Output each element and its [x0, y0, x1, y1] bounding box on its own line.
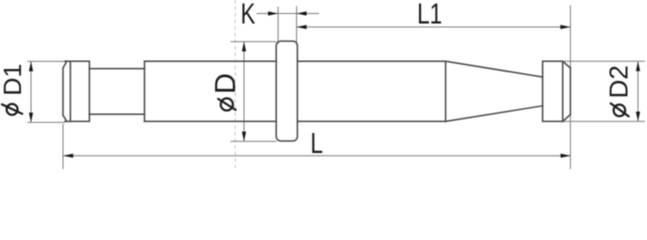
dim ext L left: [62, 124, 64, 169]
arrow K left (points right): [268, 11, 278, 15]
svg-text:D2: D2: [604, 65, 634, 98]
dim line K: [257, 13, 319, 15]
taper base line: [445, 61, 447, 121]
arrow K right (points left): [297, 11, 307, 15]
dim ext D top: [231, 41, 277, 43]
main cylinder bottom edge: [145, 120, 446, 122]
arrow D2 down: [636, 112, 640, 122]
dim ext D bottom: [231, 140, 277, 142]
svg-text:D1: D1: [0, 64, 27, 96]
dim line L1: [297, 26, 571, 28]
centerline: [234, 0, 236, 168]
dim ext D2 bottom: [563, 120, 645, 122]
right cap outline: [543, 61, 571, 121]
dim line D1: [30, 61, 32, 122]
neck bottom edge: [89, 113, 144, 115]
arrow D up: [242, 42, 246, 52]
main cylinder top edge: [145, 60, 446, 62]
arrow D1 down: [29, 113, 33, 123]
dim line L: [63, 155, 570, 157]
diameter symbol of D2: [610, 103, 629, 117]
right cap chamfer line: [562, 61, 564, 121]
step line: [144, 61, 146, 121]
diameter symbol of D1: [1, 104, 23, 115]
taper cone top: [446, 61, 543, 77]
arrow L1 right: [560, 25, 570, 29]
arrow D2 up: [636, 61, 640, 71]
arrow L1 left: [297, 25, 307, 29]
dim ext D2 top: [563, 60, 645, 62]
svg-text:L: L: [310, 128, 323, 160]
dim ext K right / L1 left: [296, 6, 298, 44]
left cap chamfer line: [69, 61, 71, 121]
left cap outline: [63, 61, 89, 121]
diameter symbol of D: [217, 98, 236, 110]
dim ext D1 top: [27, 60, 65, 62]
dim line D2: [637, 61, 639, 121]
dim ext D1 bottom: [27, 121, 65, 123]
neck top edge: [89, 68, 144, 70]
svg-text:D: D: [210, 73, 242, 94]
dim ext right L1/L: [569, 5, 571, 169]
arrow D1 up: [29, 61, 33, 71]
taper cone bottom: [446, 106, 543, 122]
arrow D down: [242, 132, 246, 142]
arrow L right: [561, 154, 571, 158]
svg-text:K: K: [241, 0, 256, 31]
collar: [276, 41, 297, 141]
dim line D: [243, 42, 245, 142]
svg-text:L1: L1: [417, 0, 442, 31]
dim ext K left: [277, 7, 279, 44]
arrow L left: [63, 154, 73, 158]
